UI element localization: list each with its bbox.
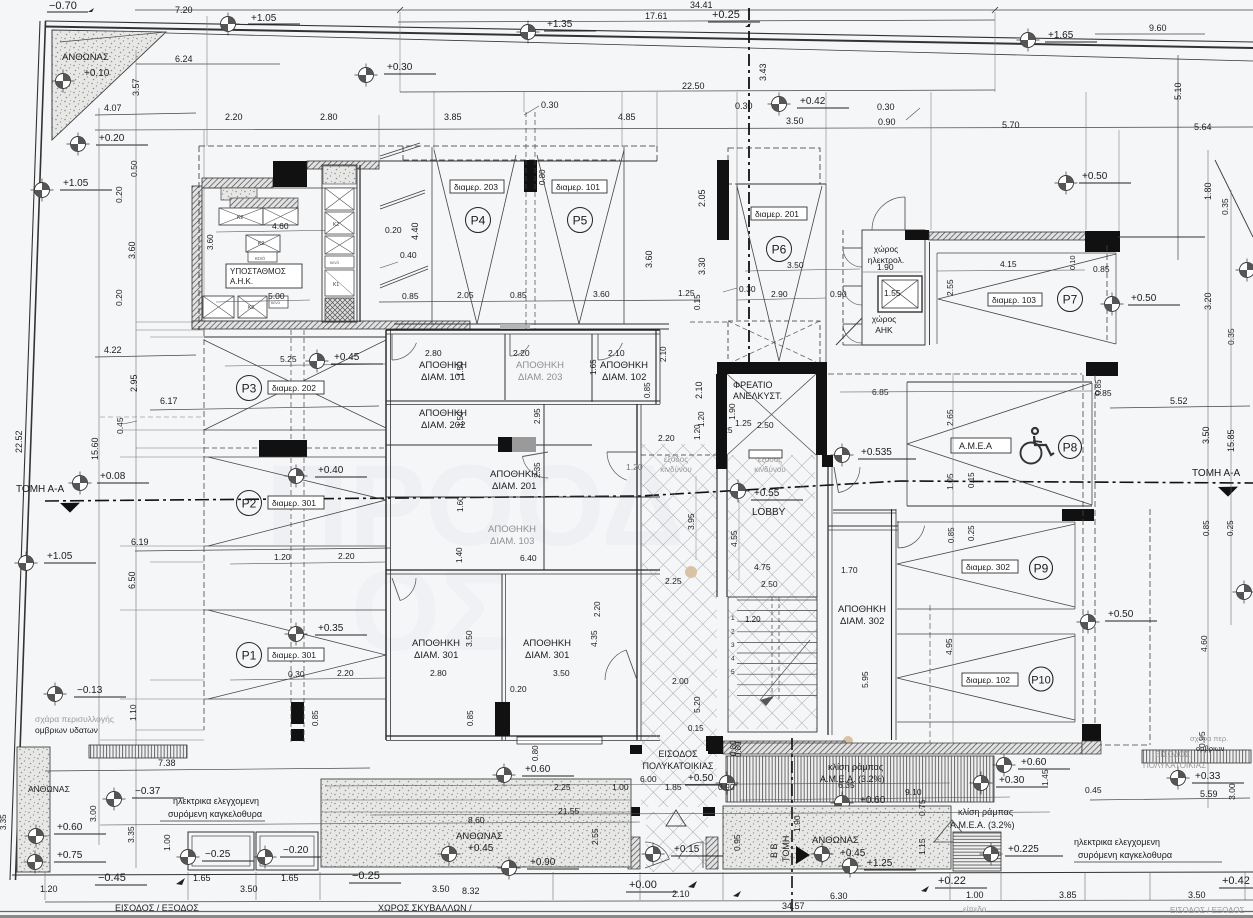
level marker +1.05 top [217, 13, 240, 36]
dim 7.38 [45, 768, 370, 771]
svg-text:0.15: 0.15 [967, 472, 976, 488]
lobby crosshatch floor [728, 455, 817, 729]
duct cell kl [325, 270, 354, 296]
svg-text:+0.535: +0.535 [861, 447, 892, 458]
svg-text:P8: P8 [1063, 441, 1078, 455]
svg-text:7.38: 7.38 [158, 758, 176, 768]
svg-text:22.50: 22.50 [682, 81, 705, 91]
dim 2.90 [737, 298, 826, 300]
svg-text:+0.25: +0.25 [712, 9, 740, 21]
svg-text:0.95: 0.95 [732, 834, 742, 851]
svg-text:0.20: 0.20 [385, 225, 402, 235]
svg-text:3.35: 3.35 [126, 826, 136, 843]
left yard extension lines [136, 321, 204, 323]
column (black) P3P2 [259, 440, 307, 457]
big planter inner lines [321, 799, 631, 801]
P7 dashed edge [1106, 245, 1108, 340]
dim 5.10 vertical [1177, 55, 1179, 260]
svg-text:2.80: 2.80 [320, 112, 338, 122]
parking P1 stripe [208, 610, 386, 655]
svg-text:διαμερ. 203: διαμερ. 203 [454, 182, 498, 192]
door arc room302 right [898, 526, 925, 548]
level marker +0.20 [67, 133, 90, 156]
svg-text:3.85: 3.85 [1059, 890, 1077, 900]
section line TOMH B-B vertical [791, 738, 793, 914]
svg-text:17.61: 17.61 [645, 11, 668, 21]
svg-text:K2: K2 [258, 241, 264, 247]
ramp dim 9.10 [740, 797, 1010, 800]
svg-text:1.45: 1.45 [1040, 769, 1050, 786]
dashed lines at column [204, 447, 259, 449]
inner fence line top [166, 33, 1253, 61]
svg-text:5: 5 [731, 669, 735, 676]
parking P4 V stripe [434, 150, 477, 324]
svg-text:9.10: 9.10 [905, 787, 922, 797]
dim 4.22 [95, 355, 196, 357]
svg-text:0.15: 0.15 [693, 294, 702, 310]
svg-text:5.64: 5.64 [1194, 122, 1212, 132]
svg-text:P2: P2 [242, 497, 257, 511]
svg-text:+0.75: +0.75 [57, 850, 83, 861]
right grille hatched [1142, 750, 1251, 763]
dim 5.52 [1110, 406, 1250, 408]
door arcs electrical room [843, 248, 862, 267]
svg-text:P4: P4 [471, 214, 486, 228]
svg-text:ΑΝΘΩΝΑΣ: ΑΝΘΩΝΑΣ [456, 831, 503, 842]
small ramp hatch [953, 832, 1001, 871]
column (black) P1 wall b [291, 729, 304, 741]
storage partition x592 upper [591, 334, 593, 402]
svg-text:1.65: 1.65 [589, 359, 598, 375]
label box διαμερ. 102 [962, 673, 1018, 686]
elevator shaft right wall (black) [816, 374, 827, 455]
column (black) below shaft [716, 455, 727, 469]
svg-text:2.65: 2.65 [945, 409, 955, 426]
storage block bottom wall [386, 735, 660, 737]
parking area left dashed edge [203, 330, 205, 730]
parking label P3 circle [237, 376, 262, 401]
svg-text:ομβριων υδατων: ομβριων υδατων [35, 725, 98, 735]
column (black) entry a [628, 807, 640, 816]
duct shaft strip outline [322, 165, 357, 322]
svg-text:2.20: 2.20 [658, 433, 675, 443]
svg-text:Α.Μ.Ε.Α: Α.Μ.Ε.Α [959, 441, 992, 451]
svg-text:+0.15: +0.15 [674, 844, 700, 855]
section arrow B-B [796, 846, 810, 864]
storage door arcs [392, 343, 416, 360]
label box διαμερ. 101 [552, 180, 607, 193]
svg-text:P9: P9 [1034, 562, 1049, 576]
right planter stipple [723, 806, 951, 869]
svg-text:ομβριων: ομβριων [1196, 744, 1225, 753]
svg-text:2.20: 2.20 [337, 668, 354, 678]
svg-text:0.85: 0.85 [311, 710, 320, 726]
column (black) top right a [905, 230, 929, 240]
svg-text:0.20: 0.20 [114, 289, 124, 306]
stair bottom wall hatched [723, 741, 845, 752]
svg-text:ΑΝΘΩΝΑΣ: ΑΝΘΩΝΑΣ [28, 784, 70, 794]
svg-text:P3: P3 [242, 382, 257, 396]
dim 22.50 [400, 90, 995, 92]
svg-text:0.15: 0.15 [688, 724, 704, 733]
svg-text:0.85: 0.85 [510, 290, 527, 300]
svg-text:0.30: 0.30 [288, 669, 305, 679]
elevator machine box 1.55 [878, 276, 922, 312]
entry direction triangle [666, 810, 686, 826]
svg-text:+1.35: +1.35 [547, 19, 573, 30]
room 302 top walls [828, 525, 898, 527]
storage wall y445 partial [386, 444, 498, 446]
svg-text:ΑΠΟΘΗΚΗ: ΑΠΟΘΗΚΗ [516, 360, 564, 371]
storage row wall y401 [386, 400, 660, 402]
svg-text:0.75: 0.75 [917, 799, 927, 816]
svg-text:0.85: 0.85 [947, 527, 956, 543]
svg-text:ηλεκτρικα ελεγχομενη: ηλεκτρικα ελεγχομενη [173, 796, 259, 806]
svg-text:2.25: 2.25 [665, 576, 682, 586]
parking P10 top edge [897, 633, 1075, 635]
svg-text:2.80: 2.80 [430, 668, 447, 678]
parking label P1 circle [237, 643, 262, 668]
duct X cell b [325, 212, 354, 234]
svg-text:ΤΟΜΗ Α-Α: ΤΟΜΗ Α-Α [1192, 468, 1240, 479]
stair bottom wall (black) [706, 736, 723, 751]
svg-text:ΠΟΛΥΚΑΤΟΙΚΙΑΣ: ΠΟΛΥΚΑΤΟΙΚΙΑΣ [1143, 761, 1206, 770]
svg-text:1: 1 [731, 615, 735, 622]
label box διαμερ. 103 [988, 293, 1042, 306]
svg-text:0.80: 0.80 [531, 745, 540, 761]
level marker +1.05 left [31, 179, 54, 202]
svg-text:0.30: 0.30 [877, 102, 895, 112]
svg-text:χώρος: χώρος [872, 314, 897, 324]
svg-text:1.15: 1.15 [917, 838, 927, 855]
column (black) mid partition [498, 437, 512, 452]
extension line x953 [952, 373, 954, 747]
storage right wall upper [655, 330, 657, 404]
svg-text:1.65: 1.65 [281, 873, 299, 883]
label box διαμερ. 301 P2 [268, 496, 324, 509]
top dimension line 34.41 [135, 9, 1253, 11]
elevator shaft top wall (black) [717, 362, 827, 374]
parking P5 V stripe [537, 155, 579, 324]
wall to right edge [1118, 236, 1205, 238]
svg-text:3.35: 3.35 [0, 814, 8, 830]
svg-text:3.43: 3.43 [758, 63, 768, 81]
column (black) substation top [273, 161, 307, 187]
level marker +0.535 P8 [831, 444, 854, 467]
svg-text:κενό: κενό [255, 255, 265, 262]
svg-text:0.30: 0.30 [541, 100, 559, 110]
svg-text:+0.00: +0.00 [629, 879, 657, 891]
column (black) between P4 P5 [524, 160, 537, 192]
canopy dashed outline top [199, 145, 657, 147]
svg-text:+0.08: +0.08 [100, 471, 126, 482]
level marker +0.60 mid [831, 792, 854, 815]
svg-text:ΧΩΡΟΣ ΣΚΥΒΑΛΛΩΝ /: ΧΩΡΟΣ ΣΚΥΒΑΛΛΩΝ / [378, 903, 472, 913]
parking P8 bottom edge [833, 509, 896, 511]
svg-text:4.07: 4.07 [104, 103, 122, 113]
svg-text:P1: P1 [242, 649, 257, 663]
svg-text:διαμερ. 101: διαμερ. 101 [556, 182, 600, 192]
duct right wall [359, 165, 361, 322]
door leaf b [380, 266, 428, 288]
bin store boxes [188, 832, 254, 870]
room 302 left wall [827, 455, 829, 735]
svg-text:1.55: 1.55 [884, 288, 901, 298]
column (black) P8 right bottom [1062, 509, 1094, 521]
level marker +0.50 P7 [1101, 293, 1124, 316]
label box διαμερ. 302 P9 [962, 560, 1018, 573]
svg-text:3.60: 3.60 [206, 234, 215, 250]
svg-text:1.10: 1.10 [128, 704, 138, 721]
ramp surface vertical hatch [726, 756, 994, 802]
svg-text:διαμερ. 102: διαμερ. 102 [966, 675, 1010, 685]
parking label P9 circle [1030, 557, 1053, 580]
staircase stringer dashed [771, 597, 773, 700]
dim 5.25 [225, 364, 386, 366]
door arc into P8 [839, 467, 861, 493]
dim 1.90 elec [863, 271, 922, 273]
column (black) top right b [1085, 231, 1120, 252]
parking bay bottom wall [394, 323, 669, 325]
dim 6.19 [135, 548, 390, 551]
svg-text:4.22: 4.22 [104, 345, 122, 355]
svg-text:2.10: 2.10 [694, 381, 704, 399]
entry side wall left grey [628, 837, 640, 869]
svg-text:6.00: 6.00 [640, 774, 657, 784]
window in bottom wall [517, 737, 602, 744]
dim 4.07 [95, 113, 196, 115]
dim 6.17 [150, 406, 379, 410]
level marker +0.30 ramp [970, 772, 993, 795]
storage block outer wall left [385, 330, 387, 740]
door leaf a [380, 190, 425, 209]
svg-text:1.70: 1.70 [841, 565, 858, 575]
svg-text:15.85: 15.85 [1226, 429, 1236, 452]
svg-text:5.52: 5.52 [1170, 396, 1188, 406]
substation top wall right [307, 161, 379, 169]
svg-text:0.90: 0.90 [878, 117, 896, 127]
svg-text:0.30: 0.30 [735, 101, 753, 111]
right corner boundary diagonal [1215, 160, 1253, 237]
level marker +0.33 [1167, 767, 1190, 790]
wall stub below column [1082, 741, 1101, 754]
svg-text:+0.22: +0.22 [938, 875, 966, 887]
column (black) tall near axis [717, 160, 729, 240]
svg-text:+0.50: +0.50 [1082, 171, 1108, 182]
svg-text:6.19: 6.19 [131, 537, 149, 547]
svg-text:διαμερ. 301: διαμερ. 301 [272, 650, 316, 660]
svg-text:2.05: 2.05 [697, 189, 707, 207]
substation top wall hatched [202, 178, 273, 188]
canopy dashed right [656, 146, 658, 161]
dim 6.35 [790, 788, 1045, 790]
svg-text:4.15: 4.15 [1000, 259, 1017, 269]
parking label P10 circle [1029, 667, 1053, 691]
label ΥΠΟΣΤΑΘΜΟΣ Α.Η.Κ. [226, 264, 302, 288]
svg-text:0.85: 0.85 [402, 291, 419, 301]
svg-text:3.50: 3.50 [787, 260, 804, 270]
svg-text:9.60: 9.60 [1149, 23, 1167, 33]
left extension line x136 [135, 50, 137, 868]
svg-text:1.20: 1.20 [697, 411, 706, 427]
svg-text:1.90: 1.90 [877, 262, 894, 272]
svg-text:+1.65: +1.65 [1048, 30, 1074, 41]
svg-text:ΑΝΘΩΝΑΣ: ΑΝΘΩΝΑΣ [812, 835, 859, 846]
svg-text:0.85: 0.85 [1094, 379, 1103, 395]
room 302 right wall [891, 509, 893, 740]
section arrow right [1218, 487, 1238, 497]
svg-text:+0.45: +0.45 [468, 843, 494, 854]
left grille hatched [89, 745, 187, 758]
parking P9 top edge [897, 521, 1075, 523]
level marker +0.08 [69, 472, 92, 495]
svg-text:2.10: 2.10 [672, 889, 690, 899]
left site boundary line [10, 21, 40, 880]
svg-text:0.10: 0.10 [1068, 255, 1077, 270]
storage block right wall [636, 404, 638, 740]
svg-text:1.00: 1.00 [966, 890, 984, 900]
svg-text:ΑΝΕΛΚΥΣΤ.: ΑΝΕΛΚΥΣΤ. [733, 391, 782, 401]
svg-text:1.20: 1.20 [745, 615, 761, 624]
dim 4.15 [937, 270, 1085, 271]
parking label P6 circle [767, 237, 792, 262]
corridor left wall [636, 404, 638, 740]
svg-text:5.70: 5.70 [1002, 120, 1020, 130]
svg-text:1.90: 1.90 [727, 403, 737, 420]
svg-text:+1.05: +1.05 [63, 178, 89, 189]
svg-text:−0.70: −0.70 [49, 0, 77, 12]
level marker right edge lower [1233, 581, 1253, 604]
svg-text:1.40: 1.40 [455, 547, 464, 563]
svg-text:3.60: 3.60 [127, 241, 137, 259]
svg-text:Κ1: Κ1 [333, 282, 339, 288]
svg-text:0.85: 0.85 [1093, 264, 1110, 274]
parking P6 top edge [737, 183, 826, 185]
svg-text:ΕΙΣΟΔΟΣ: ΕΙΣΟΔΟΣ [658, 749, 698, 759]
svg-text:3.50: 3.50 [240, 884, 258, 894]
dim 0.30 2.20 b [230, 678, 386, 680]
parking P3 stripe [204, 340, 386, 428]
level marker +0.60 ramp [993, 754, 1016, 777]
level marker +0.50 entry [716, 772, 739, 795]
svg-text:2.90: 2.90 [771, 289, 788, 299]
lobby dim verticals [695, 476, 697, 560]
svg-text:3.95: 3.95 [686, 513, 696, 530]
column (black) ramp left [708, 736, 723, 754]
substation mid transformer [246, 235, 280, 252]
svg-text:ΑΠΟΘΗΚΗ: ΑΠΟΘΗΚΗ [412, 638, 460, 649]
label box διαμερ. 201 [751, 207, 807, 220]
svg-text:5.95: 5.95 [860, 671, 870, 688]
svg-text:4.55: 4.55 [729, 530, 739, 547]
svg-text:ΤΟΜΗ: ΤΟΜΗ [781, 836, 791, 862]
level marker -0.13 [44, 683, 67, 706]
column (black) bottom partition [495, 702, 510, 736]
column (grey) mid partition [512, 437, 536, 452]
level marker +0.50 top right [1055, 172, 1078, 195]
level marker +0.35 [285, 623, 308, 646]
dim 5.00 [216, 300, 310, 302]
entry vestibule crosshatch [641, 745, 717, 807]
level marker right edge upper [1236, 259, 1253, 282]
svg-text:ΑΠΟΘΗΚΗ: ΑΠΟΘΗΚΗ [600, 360, 648, 371]
svg-text:+0.50: +0.50 [1131, 293, 1157, 304]
svg-text:κινδύνου: κινδύνου [660, 465, 691, 474]
svg-text:0.45: 0.45 [1085, 785, 1102, 795]
svg-text:2.95: 2.95 [129, 374, 139, 392]
svg-text:+0.60: +0.60 [1021, 757, 1047, 768]
svg-text:1.50: 1.50 [456, 411, 465, 427]
black col right of lobby [822, 455, 833, 467]
substation transformer K2 box a [219, 208, 263, 225]
parking P6 edges [736, 184, 738, 320]
svg-text:ΔΙΑΜ. 301: ΔΙΑΜ. 301 [414, 650, 458, 661]
level marker planter [438, 843, 461, 866]
svg-text:2.80: 2.80 [425, 348, 442, 358]
svg-text:Β Β: Β Β [769, 843, 779, 858]
level marker right planter [811, 843, 834, 866]
right extension line [1207, 150, 1209, 808]
lobby top dashed [641, 454, 717, 456]
storage row wall y570 [386, 569, 660, 571]
entry porch crosshatch [646, 812, 708, 872]
wall segment right of lobby [827, 455, 829, 526]
top extension verticals [399, 12, 401, 92]
svg-text:ΠΟΛΥΚΑΤΟΙΚΙΑΣ: ΠΟΛΥΚΑΤΟΙΚΙΑΣ [643, 761, 714, 771]
electrical room right wall double [929, 242, 931, 345]
substation keno box [248, 252, 277, 262]
grey window insert [500, 324, 530, 329]
dim 21.55 [370, 812, 1050, 815]
dim 8.60 [100, 822, 640, 825]
svg-text:ΔΙΑΜ. 201: ΔΙΑΜ. 201 [492, 481, 536, 492]
substation bottom keno [269, 296, 288, 308]
level marker -0.25 [177, 846, 200, 869]
svg-text:+1.05: +1.05 [47, 551, 73, 562]
svg-text:1.20: 1.20 [40, 884, 58, 894]
substation bottom wall [192, 321, 470, 329]
svg-text:6.17: 6.17 [160, 396, 178, 406]
elevator shaft left wall (black) [716, 374, 727, 455]
svg-text:1.20: 1.20 [274, 552, 291, 562]
svg-text:3.50: 3.50 [786, 116, 804, 126]
level marker +0.225 [980, 843, 1003, 866]
svg-text:σχάρα περ.: σχάρα περ. [1190, 734, 1228, 743]
substation transformer K2 box b [263, 208, 298, 225]
svg-text:5.59: 5.59 [1200, 789, 1218, 799]
dashed inner right [929, 605, 931, 745]
dim 1.20 2.20 [230, 562, 386, 564]
level marker +0.50 P9 [1077, 611, 1100, 634]
substation bottom transformer b [238, 296, 267, 318]
svg-text:0.85: 0.85 [643, 382, 652, 398]
svg-text:2.05: 2.05 [457, 290, 474, 300]
left planter strip [17, 747, 50, 872]
svg-text:−0.25: −0.25 [352, 870, 380, 882]
svg-text:0.20: 0.20 [114, 186, 124, 203]
svg-text:2.20: 2.20 [225, 112, 243, 122]
svg-text:+0.90: +0.90 [530, 857, 556, 868]
level marker +1.35 [517, 21, 540, 44]
svg-text:χώρος: χώρος [874, 244, 899, 254]
svg-text:διαμερ. 202: διαμερ. 202 [272, 383, 316, 393]
lobby right wall [816, 455, 818, 597]
level marker +0.42 [768, 93, 791, 116]
svg-text:8.60: 8.60 [468, 815, 485, 825]
column (black) ramp right [1082, 724, 1101, 741]
svg-text:+0.60: +0.60 [525, 764, 551, 775]
bottom street edge line [0, 911, 1253, 913]
